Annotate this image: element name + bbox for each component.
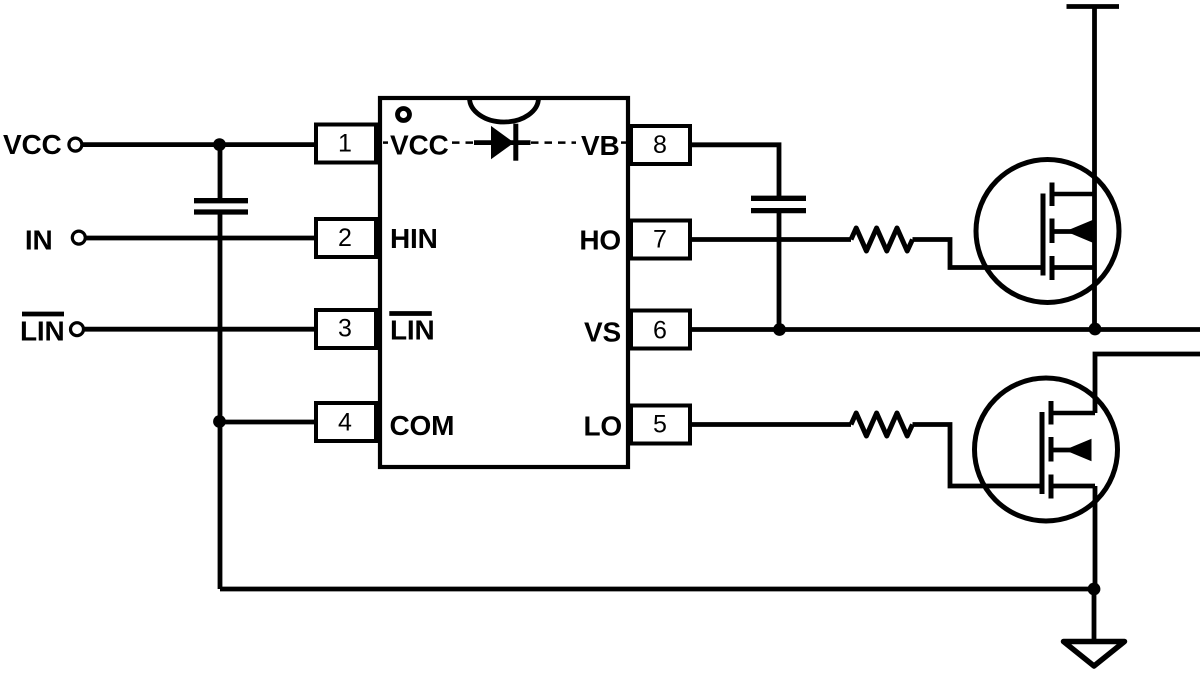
transistor Q1 body arrow [1066, 220, 1093, 243]
node VCC junction [213, 138, 226, 151]
svg-text:LO: LO [584, 411, 622, 442]
wire IN to pin 2 [86, 236, 317, 241]
terminal LIN circle [71, 323, 84, 336]
wire top rail to Q1 drain and VS [1092, 7, 1097, 330]
pin 6 box [631, 311, 690, 349]
svg-text:VB: VB [581, 130, 620, 161]
wire LIN to pin 3 [84, 327, 316, 332]
resistor R2 [851, 413, 913, 436]
U1 notch [470, 98, 539, 122]
svg-text:8: 8 [653, 131, 667, 159]
diode D1 [474, 124, 531, 161]
terminal IN circle [72, 231, 85, 244]
svg-text:HIN: HIN [390, 223, 438, 254]
svg-text:VCC: VCC [390, 130, 449, 161]
svg-text:2: 2 [338, 224, 352, 252]
transistor Q2 body arrow [1065, 439, 1092, 462]
pin 3 box [316, 310, 376, 348]
label LIN terminal overbar [22, 312, 64, 317]
capacitor C1 [194, 201, 248, 212]
wire VCC rail vertical upper [218, 145, 223, 198]
svg-text:7: 7 [653, 226, 667, 254]
wire VCC terminal to pin 1 [82, 142, 316, 147]
svg-text:LIN: LIN [20, 316, 65, 347]
wire C2 to VS node [777, 213, 782, 330]
wire phase output to right edge [1095, 354, 1200, 413]
node ground junction [1088, 583, 1101, 596]
node VS-Q1 junction [1089, 323, 1102, 336]
U1 pin-1 indicator [398, 109, 410, 121]
wire R2 to Q2 gate [913, 425, 1041, 487]
svg-text:VCC: VCC [3, 129, 62, 160]
pin 1 box [316, 125, 376, 163]
svg-text:LIN: LIN [390, 315, 435, 346]
pin 8 box [631, 126, 690, 164]
transistor Q1 [976, 160, 1119, 303]
capacitor C2 [751, 198, 806, 210]
node VS-C2 junction [773, 323, 786, 336]
svg-text:3: 3 [338, 315, 352, 343]
wire bottom ground rail [220, 587, 1094, 592]
supply rail top bar [1067, 4, 1120, 9]
pin 4 box [316, 403, 376, 441]
wire LO pin 5 to R2 [690, 422, 851, 427]
wire HO pin 7 to R1 [690, 237, 851, 242]
label LIN pin3 overbar [389, 311, 432, 316]
svg-text:HO: HO [579, 225, 621, 256]
wire ground stem [1092, 589, 1097, 641]
svg-text:5: 5 [653, 410, 667, 438]
pin 7 box [631, 221, 690, 259]
terminal VCC circle [69, 138, 82, 151]
svg-text:6: 6 [653, 316, 667, 344]
wire C1 to bottom rail vertical [218, 215, 223, 590]
wire COM junction to pin 4 [220, 420, 316, 425]
wire pin 8 to C2 [690, 145, 779, 196]
pin 2 box [316, 219, 376, 257]
wire VS pin 6 to right edge [690, 327, 1200, 332]
pin 5 box [631, 406, 690, 444]
ground [1064, 642, 1125, 667]
svg-text:4: 4 [338, 408, 352, 436]
node COM junction [213, 415, 226, 428]
op-amp U1 [380, 98, 628, 467]
wire R1 to Q1 gate [913, 240, 1042, 268]
wire Q2 source to ground rail [1093, 486, 1098, 589]
svg-text:COM: COM [390, 410, 455, 441]
svg-text:VS: VS [584, 317, 621, 348]
svg-text:IN: IN [25, 225, 53, 256]
resistor R1 [851, 228, 913, 251]
wire dashed VCC-to-diode net [383, 141, 626, 144]
transistor Q2 [975, 378, 1118, 521]
svg-text:1: 1 [338, 130, 352, 158]
